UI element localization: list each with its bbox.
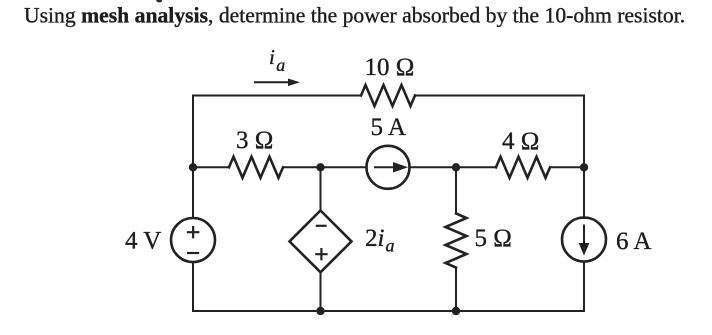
wire right edge top (583, 96, 585, 168)
node A dot (189, 163, 197, 171)
node E dot (316, 307, 324, 315)
wire middle vertical top (320, 167, 322, 210)
dependent source 2ia plus sign (315, 248, 327, 260)
resistor R 5ohm (446, 214, 467, 268)
wire top-left to 10-ohm resistor (193, 95, 361, 97)
svg-text:i: i (269, 45, 275, 69)
wire 10-ohm to top-right corner (415, 95, 584, 97)
svg-text:Using mesh analysis, determine: Using mesh analysis, determine the power… (24, 4, 685, 28)
dependent source 2ia minus sign (316, 225, 327, 227)
wire 4-ohm to right edge (550, 166, 584, 168)
wire right edge bottom (583, 262, 585, 312)
svg-text:10 Ω: 10 Ω (365, 54, 415, 81)
wire 5-ohm branch bottom (455, 268, 457, 312)
svg-text:3 Ω: 3 Ω (236, 127, 273, 154)
resistor R 10ohm (361, 85, 415, 106)
svg-text:2i: 2i (365, 225, 385, 252)
wire 3-ohm to node B (283, 166, 367, 168)
wire middle row left (193, 166, 229, 168)
svg-text:5 Ω: 5 Ω (475, 225, 512, 252)
node B dot (316, 163, 324, 171)
wire 5A to node C (410, 166, 497, 168)
wire right edge middle (583, 167, 585, 218)
current source I1 5A circle (367, 146, 410, 189)
svg-text:5 A: 5 A (371, 114, 406, 141)
svg-text:6 A: 6 A (616, 228, 651, 255)
dependent source 2ia diamond (290, 211, 352, 273)
node D dot (580, 163, 588, 171)
wire 5-ohm branch top (455, 167, 457, 213)
voltage source V1 minus sign (187, 252, 199, 254)
stray ink fragment top edge (156, 0, 162, 2)
wire bottom (193, 310, 584, 312)
resistor R 4ohm (496, 157, 550, 178)
svg-text:a: a (386, 236, 395, 256)
voltage source V1 plus sign (187, 226, 200, 238)
current arrow ia (254, 79, 300, 87)
current source I2 6A arrow (580, 225, 588, 254)
wire left edge bottom (192, 262, 194, 311)
svg-text:a: a (276, 55, 285, 75)
wire middle vertical bottom (320, 272, 322, 311)
node C dot (452, 163, 460, 171)
svg-text:4 Ω: 4 Ω (502, 128, 539, 155)
wire left edge top (192, 96, 194, 219)
svg-text:4 V: 4 V (125, 228, 161, 255)
voltage source V1 4V circle (171, 218, 215, 262)
current source I2 6A circle (562, 218, 606, 262)
node F dot (452, 307, 460, 315)
resistor R 3ohm (229, 157, 283, 178)
current source I1 5A arrow (374, 164, 405, 172)
